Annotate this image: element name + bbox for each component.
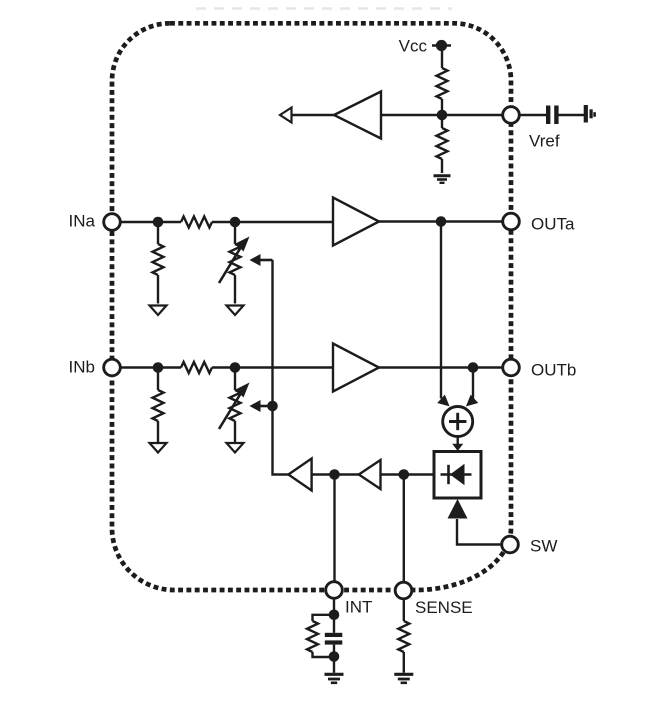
arrow into detector box (452, 444, 463, 451)
node F2 (399, 469, 410, 480)
arrow SW into box (thick up) (448, 499, 468, 519)
wire OUTa branch down (440, 222, 442, 399)
resistor R-top (Vcc divider upper) (437, 68, 448, 99)
wire Vref to capacitor (520, 114, 547, 116)
variable resistor VR1 arrow (diagonal) (219, 237, 250, 284)
resistor R3 (shunt at node A1) (153, 222, 164, 304)
ground arrow (below R6) (150, 443, 167, 453)
resistor R2 (shunt to ground arrow) (230, 222, 241, 304)
wire R-top to junction (441, 99, 443, 115)
wire R1 to amp (212, 221, 333, 223)
wire A2 to OUTb (379, 366, 503, 368)
svg-text:INa: INa (69, 212, 96, 231)
node F1 (329, 469, 340, 480)
wire SW to detector box arrow (457, 519, 502, 545)
wire F2 to buffer T2 (380, 473, 404, 475)
resistor R1 (series, horizontal) (181, 217, 212, 228)
wire OUTb branch down (472, 368, 474, 399)
ground (sideways, right of C1) (584, 105, 596, 123)
svg-text:Vref: Vref (529, 132, 560, 151)
buffer T2 (points left) (359, 460, 381, 489)
pin Vref (503, 107, 520, 124)
ground (below divider) (434, 176, 451, 183)
detector box U2 (434, 452, 481, 499)
node INT top (329, 610, 340, 621)
resistor R7 (parallel with C2) (307, 615, 334, 657)
control arrow to VR1 (250, 254, 273, 266)
arrow into summer (right) (467, 396, 477, 405)
node A2 (230, 217, 241, 228)
capacitor C1 (546, 106, 559, 125)
capacitor C2 (325, 633, 343, 645)
svg-text:SENSE: SENSE (415, 598, 473, 617)
variable resistor VR2 arrow (diagonal) (219, 383, 250, 430)
resistor R-bottom (Vcc divider lower) (437, 115, 448, 173)
pin INT (326, 582, 343, 599)
Vcc terminal (432, 40, 451, 51)
node B2 (230, 362, 241, 373)
wire INT to RC (333, 598, 335, 615)
pin SW (502, 536, 519, 553)
wire to ground (333, 657, 335, 673)
svg-text:INb: INb (69, 358, 95, 377)
wire F1 down to INT (333, 475, 335, 582)
wire R4 to amp (212, 366, 333, 368)
node divider junction (437, 110, 448, 121)
svg-text:INT: INT (345, 598, 372, 617)
node OUTb branch (468, 362, 479, 373)
op-amp U1 (reference buffer, points left) (334, 92, 381, 139)
buffer T1 (points left) (288, 459, 311, 491)
wire INa to R1 (120, 221, 181, 223)
ground arrow (below VR1) (227, 306, 244, 316)
wire T2 to node F1 (312, 473, 359, 475)
wire summer to detector box (457, 437, 459, 445)
svg-text:OUTa: OUTa (531, 215, 575, 234)
wire box to node F2 (404, 473, 434, 475)
node OUTa branch (436, 216, 447, 227)
resistor R8 (SENSE to ground) (398, 599, 409, 673)
wire T1 to feedback riser (273, 260, 289, 475)
open arrowhead (reference out) (280, 108, 292, 123)
wire F2 down to SENSE (403, 475, 405, 583)
node A1 (153, 217, 164, 228)
node B1 (153, 362, 164, 373)
pin OUTb (503, 359, 520, 376)
control arrow to VR2 (250, 400, 273, 412)
pin SENSE (395, 582, 412, 599)
pin INa (104, 214, 121, 231)
resistor R4 (series, horizontal) (181, 362, 212, 373)
wire capacitor to ground (559, 114, 585, 116)
svg-text:SW: SW (530, 537, 557, 556)
IC boundary dotted rounded rectangle (112, 23, 511, 590)
op-amp A1 (channel a) (333, 198, 379, 246)
wire INb to R4 (120, 366, 181, 368)
diode D1 (inside box, points left) (441, 464, 472, 485)
wire node to C2 and C2 to node (333, 615, 335, 633)
arrow into summer (left) (439, 396, 449, 405)
ground (below INT RC) (325, 674, 344, 683)
resistor R6 (shunt at node B1) (153, 368, 164, 443)
op-amp A2 (channel b) (333, 344, 379, 392)
wire U1 output left (291, 114, 334, 116)
wire A1 to OUTa (379, 220, 503, 222)
faint cropped remnant at top (196, 7, 452, 10)
resistor R5 (shunt to ground arrow) (230, 368, 241, 443)
wire reference rail (381, 114, 503, 116)
ground arrow (below R3) (150, 306, 167, 316)
pin OUTa (503, 213, 520, 230)
pin INb (104, 359, 121, 376)
node INT bottom (329, 651, 340, 662)
svg-text:OUTb: OUTb (531, 361, 576, 380)
summing junction (443, 407, 473, 437)
wire Vcc to R-top (441, 46, 443, 69)
ground arrow (below VR2) (227, 443, 244, 453)
node feedback branch (267, 401, 278, 412)
svg-text:Vcc: Vcc (399, 37, 428, 56)
ground (below SENSE R) (394, 674, 413, 683)
